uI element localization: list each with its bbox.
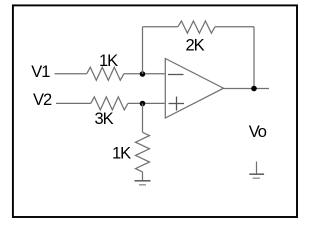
wire R1 to node A — [124, 73, 165, 75]
ground GND2 bar 2 — [253, 177, 260, 179]
ground GND2 stub — [256, 162, 258, 175]
wire R2 to node B — [128, 102, 165, 104]
svg-text:3K: 3K — [95, 110, 114, 128]
wire V2 lead — [56, 102, 91, 104]
op-amp plus input stub — [169, 103, 185, 105]
resistor R4 1K (non-inverting input to ground) — [136, 132, 150, 172]
ground GND1 bar 2 — [139, 184, 146, 186]
wire feedback top left — [143, 26, 178, 28]
junction node A (inverting input) — [140, 71, 146, 77]
wire node B down to R4 — [142, 103, 144, 132]
op-amp minus input stub — [168, 74, 184, 76]
svg-text:V1: V1 — [31, 63, 50, 81]
resistor R1 1K (V1 to inverting input) — [87, 67, 124, 80]
op-amp U1 triangle — [165, 59, 223, 119]
ground GND1 bar 1 — [135, 180, 151, 182]
junction node B (non-inverting input) — [140, 101, 146, 107]
svg-text:2K: 2K — [186, 37, 205, 55]
wire R4 to ground — [142, 172, 144, 181]
junction node output — [251, 86, 257, 92]
wire feedback vertical left — [142, 27, 144, 74]
wire feedback top right — [215, 26, 254, 28]
ground GND2 bar 1 — [249, 173, 264, 175]
svg-text:1K: 1K — [99, 52, 118, 70]
wire feedback vertical right — [253, 27, 255, 89]
svg-text:1K: 1K — [112, 145, 131, 163]
svg-text:Vo: Vo — [249, 123, 267, 141]
op-amp plus input vertical tick — [176, 97, 178, 111]
resistor R2 3K (V2 to non-inverting input) — [91, 97, 128, 110]
resistor R3 2K (feedback) — [178, 21, 215, 33]
border frame — [13, 5, 297, 217]
wire V1 lead — [55, 73, 87, 75]
svg-text:V2: V2 — [33, 91, 52, 109]
wire op-amp output — [224, 88, 270, 90]
